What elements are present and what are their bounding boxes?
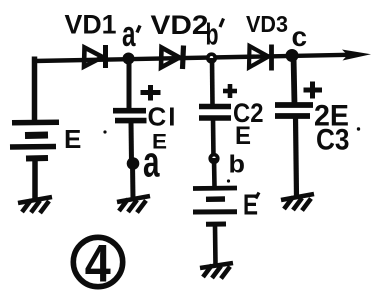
plus sign of C1 xyxy=(141,85,161,101)
battery E xyxy=(10,122,59,158)
diode VD2 xyxy=(161,46,184,70)
svg-text:VD1: VD1 xyxy=(65,10,117,40)
ground (under battery E') xyxy=(200,263,233,279)
wire node b' down to C2 xyxy=(210,58,215,106)
wire C3 down to ground xyxy=(296,116,297,197)
svg-text:E: E xyxy=(235,122,251,150)
node a' (junction dot on rail) xyxy=(123,53,135,65)
svg-text:C3: C3 xyxy=(316,124,350,157)
figure number 4 in circle xyxy=(73,235,122,294)
wire left vertical drop to battery E xyxy=(32,57,38,122)
label E' xyxy=(243,190,259,222)
wire node b down to battery E' xyxy=(212,158,217,187)
ground (left, under battery E) xyxy=(18,197,52,213)
wire top rail from left corner to arrow xyxy=(34,55,348,61)
svg-text:VD2: VD2 xyxy=(151,10,209,40)
wire battery E' down to ground xyxy=(213,225,218,265)
wire C1 down to node a xyxy=(129,121,135,163)
wire node a' down to C1 xyxy=(127,58,132,110)
node c (junction dot) xyxy=(286,49,299,62)
svg-text:CI: CI xyxy=(148,102,178,132)
node b' (open-center junction) xyxy=(206,52,217,63)
svg-text:VD3: VD3 xyxy=(246,11,288,37)
scan speck right of 2E xyxy=(357,127,360,130)
label a' xyxy=(122,13,140,54)
svg-text:b: b xyxy=(206,17,219,52)
label b' xyxy=(206,17,224,52)
capacitor C3 xyxy=(275,105,313,116)
node a (dot) xyxy=(127,157,140,170)
wire node c down to C3 xyxy=(294,55,295,105)
diode VD1 xyxy=(84,45,106,68)
svg-text:c: c xyxy=(292,21,308,52)
svg-text:a: a xyxy=(122,13,136,54)
scan speck left of C1 xyxy=(103,130,106,133)
svg-text:a: a xyxy=(143,138,160,187)
svg-text:b: b xyxy=(229,151,246,179)
capacitor C2 xyxy=(199,107,231,119)
ground (under C3) xyxy=(281,194,314,211)
scan speck near label b xyxy=(227,179,230,182)
svg-text:E: E xyxy=(64,124,81,154)
wire battery E to ground xyxy=(32,161,38,199)
svg-text:E: E xyxy=(243,190,258,222)
ground (under node a) xyxy=(117,196,150,213)
wire C2 down to node b xyxy=(211,118,216,158)
plus sign of C2 xyxy=(223,84,237,98)
diode VD3 xyxy=(249,45,272,71)
arrowhead on output wire xyxy=(342,50,371,61)
plus sign of C3 xyxy=(304,82,323,99)
wire node a down to ground xyxy=(130,163,136,199)
svg-text:4: 4 xyxy=(85,235,111,294)
node b (open-center junction) xyxy=(208,153,219,164)
battery E' xyxy=(193,188,237,224)
capacitor C1 xyxy=(113,111,147,121)
